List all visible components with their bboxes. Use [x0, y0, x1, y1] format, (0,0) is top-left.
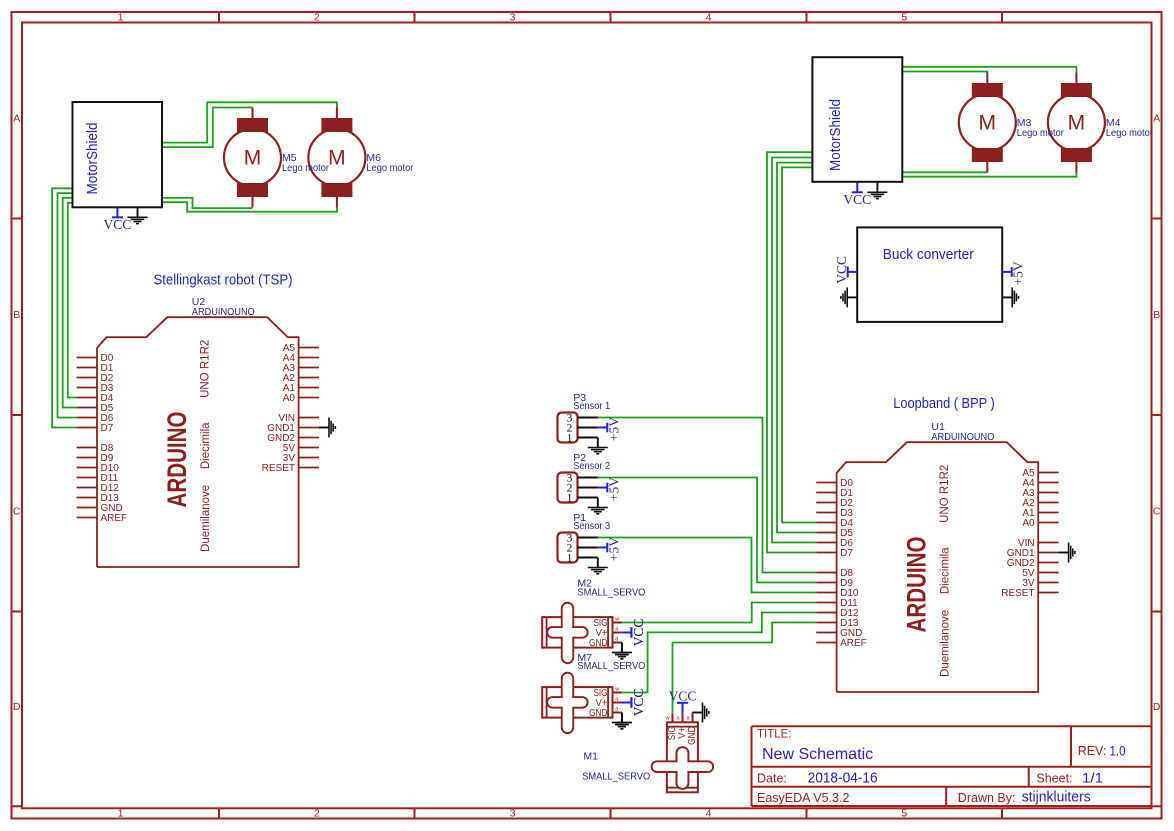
- svg-text:1/1: 1/1: [1082, 770, 1103, 786]
- svg-text:+5V: +5V: [1011, 261, 1026, 285]
- svg-text:w: w: [614, 687, 619, 693]
- svg-text:GND: GND: [589, 638, 608, 649]
- svg-text:Lego motor: Lego motor: [282, 162, 329, 174]
- svg-text:GND: GND: [687, 726, 698, 745]
- svg-text:+5V: +5V: [606, 477, 621, 501]
- svg-text:2: 2: [314, 12, 320, 24]
- svg-text:EasyEDA V5.3.2: EasyEDA V5.3.2: [757, 791, 849, 805]
- svg-text:Sensor 2: Sensor 2: [573, 460, 610, 472]
- svg-text:Duemilanove: Duemilanove: [200, 485, 212, 552]
- svg-text:VCC: VCC: [843, 192, 871, 207]
- svg-text:Lego motor: Lego motor: [1017, 127, 1064, 139]
- svg-text:Loopband ( BPP ): Loopband ( BPP ): [893, 395, 995, 412]
- svg-text:w: w: [665, 715, 670, 721]
- svg-text:M: M: [328, 147, 346, 170]
- svg-text:Diecimila: Diecimila: [940, 547, 952, 594]
- svg-text:Date:: Date:: [757, 772, 787, 786]
- svg-text:M: M: [244, 147, 262, 170]
- svg-text:REV:: REV:: [1078, 744, 1107, 758]
- svg-text:Stellingkast robot (TSP): Stellingkast robot (TSP): [154, 272, 293, 289]
- svg-text:A0: A0: [283, 393, 296, 404]
- svg-text:SMALL_SERVO: SMALL_SERVO: [577, 660, 645, 672]
- svg-text:Drawn By:: Drawn By:: [958, 791, 1016, 805]
- svg-text:+5V: +5V: [606, 537, 621, 561]
- svg-text:SMALL_SERVO: SMALL_SERVO: [582, 770, 650, 782]
- svg-text:D: D: [13, 701, 21, 713]
- svg-text:SMALL_SERVO: SMALL_SERVO: [577, 587, 645, 599]
- svg-text:ARDUINOUNO: ARDUINOUNO: [931, 431, 994, 443]
- svg-text:Lego motor: Lego motor: [1106, 127, 1153, 139]
- svg-text:ARDUINO: ARDUINO: [902, 537, 932, 633]
- svg-text:VCC: VCC: [669, 688, 697, 703]
- svg-text:D7: D7: [101, 423, 114, 434]
- svg-text:M: M: [1068, 112, 1086, 135]
- svg-text:D: D: [1153, 701, 1161, 713]
- svg-text:1: 1: [567, 493, 573, 505]
- svg-text:A0: A0: [1022, 518, 1035, 529]
- svg-text:M1: M1: [583, 751, 598, 763]
- svg-text:w: w: [614, 617, 619, 623]
- svg-text:Duemilanove: Duemilanove: [940, 610, 952, 677]
- svg-text:RESET: RESET: [262, 463, 295, 474]
- svg-text:MotorShield: MotorShield: [85, 123, 101, 195]
- svg-text:AREF: AREF: [840, 638, 867, 649]
- svg-text:D7: D7: [840, 548, 853, 559]
- svg-text:A: A: [13, 113, 20, 125]
- svg-text:5: 5: [901, 12, 907, 24]
- svg-text:GND: GND: [589, 708, 608, 719]
- svg-text:VCC: VCC: [631, 619, 646, 647]
- svg-text:2018-04-16: 2018-04-16: [808, 770, 878, 787]
- svg-text:1: 1: [567, 553, 573, 565]
- svg-text:1.0: 1.0: [1110, 743, 1126, 758]
- svg-text:AREF: AREF: [101, 513, 128, 524]
- svg-text:5: 5: [901, 808, 907, 820]
- svg-text:1: 1: [118, 808, 124, 820]
- svg-text:Diecimila: Diecimila: [200, 422, 212, 469]
- svg-text:New Schematic: New Schematic: [762, 746, 873, 763]
- svg-text:Lego motor: Lego motor: [366, 162, 413, 174]
- svg-text:4: 4: [706, 12, 712, 24]
- svg-text:3: 3: [510, 808, 516, 820]
- svg-text:Sensor 3: Sensor 3: [573, 520, 610, 532]
- svg-text:1: 1: [567, 433, 573, 445]
- svg-text:Sensor 1: Sensor 1: [573, 400, 610, 412]
- svg-text:RESET: RESET: [1001, 588, 1034, 599]
- svg-text:VCC: VCC: [631, 689, 646, 717]
- svg-text:B: B: [13, 309, 20, 321]
- svg-text:1: 1: [118, 12, 124, 24]
- svg-text:MotorShield: MotorShield: [828, 99, 844, 171]
- svg-text:B: B: [1153, 309, 1160, 321]
- svg-text:Sheet:: Sheet:: [1036, 772, 1072, 786]
- svg-text:stijnkluiters: stijnkluiters: [1022, 789, 1091, 806]
- svg-text:Buck converter: Buck converter: [883, 246, 974, 263]
- svg-text:UNO R1R2: UNO R1R2: [200, 340, 212, 398]
- svg-text:4: 4: [706, 808, 712, 820]
- svg-text:VCC: VCC: [104, 217, 132, 232]
- svg-text:ARDUINO: ARDUINO: [162, 412, 192, 508]
- svg-text:2: 2: [314, 808, 320, 820]
- svg-text:+5V: +5V: [606, 417, 621, 441]
- svg-text:M: M: [979, 112, 997, 135]
- svg-text:3: 3: [510, 12, 516, 24]
- svg-text:ARDUINOUNO: ARDUINOUNO: [192, 306, 255, 318]
- svg-text:C: C: [13, 505, 21, 517]
- svg-text:A: A: [1153, 113, 1160, 125]
- svg-text:VCC: VCC: [834, 256, 849, 284]
- svg-text:C: C: [1153, 505, 1161, 517]
- svg-text:UNO R1R2: UNO R1R2: [939, 465, 951, 523]
- svg-text:TITLE:: TITLE:: [757, 729, 792, 741]
